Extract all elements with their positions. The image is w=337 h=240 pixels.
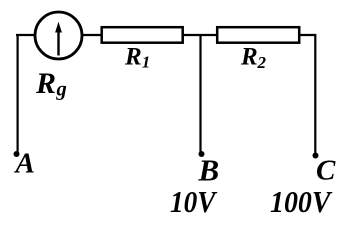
svg-text:1: 1 — [142, 53, 151, 72]
svg-text:A: A — [14, 148, 35, 180]
svg-text:2: 2 — [257, 53, 267, 72]
svg-text:100V: 100V — [270, 184, 333, 219]
svg-text:B: B — [198, 153, 220, 188]
svg-text:R: R — [35, 67, 56, 100]
svg-text:g: g — [56, 79, 67, 101]
svg-text:C: C — [316, 155, 336, 187]
svg-text:10V: 10V — [170, 184, 218, 219]
svg-text:R: R — [124, 44, 142, 71]
svg-text:R: R — [240, 44, 258, 71]
